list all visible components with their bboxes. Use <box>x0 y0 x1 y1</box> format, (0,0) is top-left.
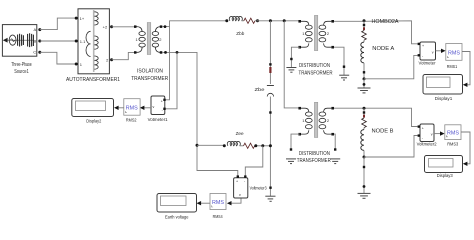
inductor L (Zbe) <box>267 85 274 87</box>
node dot at secondary top <box>164 25 167 28</box>
svg-text:Voltmeter2: Voltmeter2 <box>417 142 437 147</box>
wire: neutral down to voltmeter3 <box>197 145 238 177</box>
ground NODE A <box>358 88 371 93</box>
three-phase source V1 block <box>2 25 36 76</box>
svg-text:RMS: RMS <box>126 106 138 112</box>
voltmeter2 <box>417 124 437 147</box>
svg-text:Display1: Display1 <box>435 96 453 101</box>
RMS4 block (mirrored) <box>210 194 226 220</box>
source port C <box>38 51 41 54</box>
ground under Zbe/Zee node <box>265 196 275 201</box>
RMS1 block <box>446 44 462 70</box>
svg-text:RMS1: RMS1 <box>447 64 458 69</box>
wire: drop to voltmeter1 input 2 <box>165 52 177 108</box>
svg-text:C: C <box>33 50 36 55</box>
svg-text:Votmeter1: Votmeter1 <box>148 117 168 122</box>
voltmeter V (top right) <box>418 42 436 66</box>
svg-text:+2: +2 <box>103 25 108 30</box>
wire B source to autotransformer 1.1 <box>40 40 76 42</box>
DT2 right neutral to ground <box>334 134 335 150</box>
wire DT1 secondary to HOMBO2A bus <box>334 21 418 44</box>
junction dot Zbe tap <box>269 19 272 22</box>
svg-text:Zbb: Zbb <box>236 31 245 36</box>
wire NODE B to voltmeter2 minus <box>364 136 418 158</box>
svg-text:Votmeter: Votmeter <box>419 61 436 66</box>
svg-text:TRANSFORMER: TRANSFORMER <box>131 76 168 82</box>
ground DT2 right <box>330 159 340 164</box>
svg-text:+: + <box>422 44 424 48</box>
Zbb series RL branch <box>225 16 259 36</box>
wire DT2 secondary bus to voltmeter2 <box>334 108 418 126</box>
junction NODE A tap <box>363 19 366 22</box>
wire C source to autotransformer 1 <box>40 52 76 64</box>
wire A source to autotransformer 1+ <box>40 18 76 30</box>
wire autotransformer +2 to isolation transformer 1 top <box>112 26 135 28</box>
svg-text:Voltmeter3: Voltmeter3 <box>250 186 267 191</box>
svg-text:Display3: Display3 <box>437 173 453 178</box>
junction dot at 176 <box>176 51 179 54</box>
svg-text:+: + <box>236 180 238 184</box>
autotransformer winding icon <box>93 10 95 72</box>
Display3 block <box>425 156 463 179</box>
wire RMS3 to Display3 <box>461 132 470 164</box>
svg-text:RMS: RMS <box>448 50 460 56</box>
DT1 right neutral wire to ground <box>334 47 344 75</box>
wire NODE A to ground <box>363 79 365 88</box>
svg-text:+: + <box>161 99 163 103</box>
wire NODE A to voltmeter minus <box>364 55 418 78</box>
feeder from top bus down to DT2 <box>284 21 298 108</box>
node dot secondary bottom <box>164 51 167 54</box>
Zee series RL branch <box>196 131 272 148</box>
svg-text:Display2: Display2 <box>86 119 101 124</box>
svg-text:A: A <box>34 27 37 32</box>
top bus continues to DT1 <box>257 20 299 22</box>
inductor L (Zee) <box>227 141 240 145</box>
wire RMS2 to Display2 <box>118 107 124 109</box>
svg-text:Zee: Zee <box>236 131 245 136</box>
svg-text:RMS3: RMS3 <box>447 142 458 147</box>
svg-text:v: v <box>239 193 241 197</box>
ground NODE B <box>358 193 371 198</box>
wire: iso secondary top to top bus <box>162 21 227 27</box>
wire RMS4 to Earth voltage display <box>201 202 210 204</box>
wire: vertical from secondary top down to voltmeter1 input 1 <box>165 27 170 100</box>
svg-text:ISOLATION: ISOLATION <box>137 68 163 74</box>
svg-text:RMS2: RMS2 <box>126 118 137 123</box>
svg-text:B: B <box>34 39 37 44</box>
DT2 left neutral to ground <box>291 134 300 150</box>
resistor R (NODE B branch) <box>362 118 367 128</box>
RMS2 block (mirrored) <box>124 99 140 123</box>
Earth voltage display block <box>157 194 197 220</box>
autotransformer T1 block <box>66 9 120 83</box>
Zbe vertical branch <box>255 21 274 146</box>
arrow voltmeter1 to RMS2 <box>144 107 151 109</box>
junction NODE B tap <box>363 107 366 110</box>
svg-text:Zbe: Zbe <box>255 87 266 92</box>
left winding <box>137 27 143 32</box>
svg-text:RMS4: RMS4 <box>213 214 223 219</box>
wire Zee junction down to voltmeter3 input 2 <box>245 146 262 178</box>
svg-text:RMS: RMS <box>212 200 224 206</box>
distribution transformer DT2 <box>297 102 334 164</box>
svg-text:TRANSFORMER: TRANSFORMER <box>297 158 331 164</box>
svg-text:v: v <box>431 132 433 136</box>
svg-text:Earth voltage: Earth voltage <box>165 215 189 220</box>
wire NODE B to ground <box>363 157 365 193</box>
svg-text:NODE B: NODE B <box>372 129 395 135</box>
ground DT1 right <box>339 75 349 80</box>
RMS3 block <box>445 125 461 147</box>
NODE A series RL branch <box>361 21 395 81</box>
voltmeter3 (inputs on top) <box>234 175 267 198</box>
wire voltmeter3 to RMS4 <box>231 199 241 204</box>
wire: iso secondary bottom run to long vertical <box>162 52 197 145</box>
svg-text:v: v <box>432 50 434 54</box>
svg-text:RMS: RMS <box>447 131 459 137</box>
resistor R (NODE A branch) <box>362 31 367 41</box>
wire Zbe node down to ground <box>269 146 271 196</box>
resistor R (Zbe) <box>269 67 271 73</box>
DT1 left neutral wire to ground <box>291 47 299 67</box>
voltmeter1 (mirrored, left) <box>148 96 168 122</box>
core <box>147 23 151 55</box>
svg-text:1+: 1+ <box>80 16 85 21</box>
wire autotransformer 2 to isolation transformer 1 bottom <box>112 52 135 59</box>
ground DT2 left <box>286 159 296 164</box>
svg-text:Source1: Source1 <box>14 69 29 75</box>
resistor R (Zee) <box>244 143 255 148</box>
svg-text:TRANSFORMER: TRANSFORMER <box>299 70 333 76</box>
svg-text:AUTOTRANSFORMER1: AUTOTRANSFORMER1 <box>66 77 120 83</box>
inductor L (Zbb) <box>229 16 242 20</box>
svg-text:1.1: 1.1 <box>80 39 86 44</box>
ground DT1 left <box>286 68 296 73</box>
Display2 block <box>72 99 114 124</box>
source port B <box>38 40 41 43</box>
svg-text:DISTRIBUTION: DISTRIBUTION <box>299 63 330 69</box>
NODE B series RL branch <box>361 108 394 158</box>
Display1 block <box>423 75 463 102</box>
wire RMS1 to Display1 <box>462 52 470 85</box>
svg-text:NODE A: NODE A <box>372 46 395 52</box>
arrow voltmeter to RMS1 <box>436 50 442 52</box>
right winding <box>155 27 161 32</box>
inductor L (NODE B branch) <box>361 130 364 151</box>
distribution transformer DT1 <box>298 15 334 76</box>
source port A <box>38 28 41 31</box>
svg-text:v: v <box>153 105 155 109</box>
junction dot DT2 feeder tap <box>283 19 286 22</box>
svg-text:Three-Phase: Three-Phase <box>11 62 32 68</box>
inductor L (NODE A branch) <box>361 42 364 63</box>
svg-text:HOMBO2A: HOMBO2A <box>372 19 400 25</box>
isolation transformer T2 <box>131 23 168 82</box>
svg-text:+: + <box>422 126 424 130</box>
arrow voltmeter2 to RMS3 <box>434 133 441 135</box>
svg-text:DISTRIBUTION: DISTRIBUTION <box>299 151 330 157</box>
resistor R (Zbb) <box>244 18 255 23</box>
